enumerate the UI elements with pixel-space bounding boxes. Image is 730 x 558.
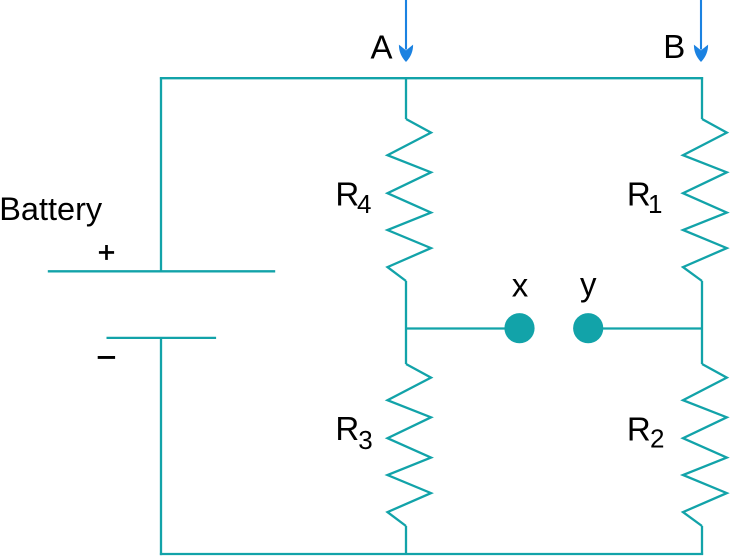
battery + sign [99, 245, 114, 260]
svg-text:A: A [371, 29, 393, 66]
current arrow into node A [399, 0, 413, 62]
battery positive plate [48, 270, 275, 272]
current arrow into node B [694, 0, 708, 62]
resistor R4 [388, 119, 432, 281]
terminal y dot [573, 313, 603, 343]
svg-text:3: 3 [358, 425, 372, 455]
svg-text:R: R [335, 410, 359, 447]
wire top bus A-B [160, 77, 703, 79]
wire left vertical from battery - to bottom [160, 338, 162, 555]
resistor R3 [388, 364, 432, 526]
wire right branch middle segment [701, 281, 703, 364]
svg-text:R: R [335, 175, 359, 212]
wire node B lead [701, 77, 703, 119]
battery negative plate [107, 337, 217, 339]
resistor R1 [683, 119, 727, 281]
wire node A lead [405, 77, 407, 119]
wire right branch bottom lead [701, 526, 703, 555]
battery - sign [98, 356, 115, 359]
wire left vertical to battery + [160, 77, 162, 271]
wire left branch middle segment [405, 281, 407, 364]
svg-text:Battery: Battery [0, 191, 103, 227]
wire bottom bus [160, 553, 703, 555]
svg-text:4: 4 [357, 189, 371, 219]
svg-text:1: 1 [648, 189, 662, 219]
svg-text:B: B [663, 28, 685, 65]
svg-text:y: y [580, 266, 597, 303]
wire bridge right from terminal y [598, 327, 702, 329]
svg-text:2: 2 [650, 424, 664, 454]
svg-text:R: R [627, 410, 651, 447]
terminal x dot [504, 313, 534, 343]
resistor R2 [683, 364, 727, 526]
wire bridge left to terminal x [406, 327, 510, 329]
wire left branch bottom lead [405, 526, 407, 555]
svg-text:x: x [512, 266, 529, 303]
